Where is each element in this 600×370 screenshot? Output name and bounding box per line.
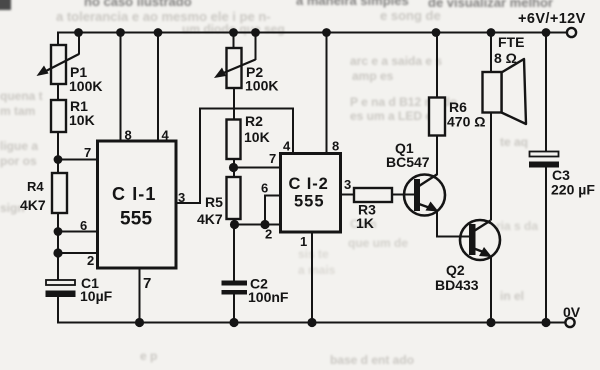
svg-text:10µF: 10µF — [80, 288, 113, 304]
wire pin 1 CI-2 to 0V rail — [311, 232, 313, 323]
svg-text:2: 2 — [265, 227, 272, 242]
wire pin 4 CI-1 to +V rail — [157, 33, 159, 142]
P1 wiper arrow — [37, 33, 80, 77]
svg-text:8: 8 — [125, 128, 132, 143]
junction P1 wiper / +V rail — [74, 28, 83, 37]
resistor R1 — [51, 100, 66, 132]
svg-text:arc e a saida e s: arc e a saida e s — [350, 54, 442, 68]
junction pin8 CI-2 on +V rail — [322, 28, 331, 37]
wire R1 to R4 — [57, 132, 59, 173]
svg-text:BC547: BC547 — [386, 154, 430, 170]
svg-text:6: 6 — [80, 218, 87, 233]
junction pin1 CI-2 on 0V rail — [307, 318, 316, 327]
svg-text:4K7: 4K7 — [20, 197, 46, 213]
junction node pin2 CI-1 — [53, 248, 62, 257]
potentiometer P2 body — [227, 48, 242, 88]
junction node pin6 CI-1 — [54, 227, 63, 236]
svg-text:amp es: amp es — [352, 69, 394, 83]
wire Q2 emitter to 0V rail — [490, 256, 492, 323]
wire C3 to 0V rail — [545, 168, 547, 323]
svg-text:10K: 10K — [69, 112, 95, 128]
wire R3 to Q1 base — [392, 194, 414, 196]
svg-text:10K: 10K — [244, 129, 270, 145]
junction P2 wiper / +V rail — [251, 28, 260, 37]
junction pin6/pin2 tie CI-2 — [260, 220, 269, 229]
svg-text:base d ent ado: base d ent ado — [330, 353, 414, 367]
junction node pin2 CI-2 — [230, 220, 239, 229]
svg-text:8 Ω: 8 Ω — [494, 50, 517, 66]
svg-text:Q2: Q2 — [446, 262, 465, 278]
svg-text:ligue a: ligue a — [0, 139, 38, 153]
junction pin7 CI-1 on 0V rail — [135, 318, 144, 327]
+V supply rail wire — [58, 33, 567, 46]
svg-text:R4: R4 — [27, 179, 44, 194]
wire pin 3 CI-2 to R3 — [341, 194, 355, 196]
capacitor C2 — [222, 281, 248, 295]
wire Q1 collector to R6 — [436, 136, 438, 175]
svg-text:100nF: 100nF — [248, 289, 289, 305]
svg-text:no caso ilustrado: no caso ilustrado — [84, 0, 192, 9]
svg-text:100K: 100K — [69, 78, 102, 94]
wire R4 to C1 — [57, 213, 59, 280]
svg-text:555: 555 — [294, 193, 325, 211]
wire to pin 2 CI-1 — [58, 252, 98, 254]
svg-text:R5: R5 — [205, 194, 223, 210]
junction Q2 emitter on 0V rail — [486, 318, 495, 327]
wire Q2 collector to speaker — [490, 113, 492, 221]
svg-text:8: 8 — [332, 139, 339, 154]
junction node pin7 CI-2 — [229, 163, 238, 172]
wire C3 to +V rail — [545, 33, 547, 152]
wire to pin 7 CI-1 — [58, 159, 98, 161]
junction C3 on +V rail — [542, 28, 551, 37]
svg-text:470 Ω: 470 Ω — [447, 114, 485, 130]
svg-text:e song de: e song de — [380, 8, 441, 23]
svg-text:m tam: m tam — [0, 104, 35, 118]
wire speaker to +V rail — [490, 33, 492, 73]
svg-text:7: 7 — [84, 145, 91, 160]
speaker FTE — [483, 59, 527, 124]
svg-text:R2: R2 — [245, 113, 263, 129]
wire to pin 2 CI-2 — [235, 224, 281, 226]
junction R6 on +V rail — [432, 28, 441, 37]
capacitor C3 — [529, 152, 559, 168]
junction speaker on +V rail — [487, 28, 496, 37]
svg-text:te aq: te aq — [500, 135, 528, 149]
svg-text:2: 2 — [87, 253, 94, 268]
svg-text:220 µF: 220 µF — [551, 182, 595, 198]
resistor R3 — [354, 188, 392, 202]
wire R5 to C2 — [233, 219, 235, 281]
svg-text:7: 7 — [143, 275, 151, 292]
P2 wiper arrow — [214, 33, 256, 79]
junction node pin7 CI-1 — [54, 155, 63, 164]
wire P2 to +V rail — [233, 33, 235, 49]
svg-text:1K: 1K — [356, 215, 374, 231]
svg-text:555: 555 — [120, 209, 153, 230]
svg-text:4: 4 — [162, 128, 170, 143]
wire Q1 emitter to Q2 base — [437, 211, 469, 237]
op IC CI-2 555 — [281, 154, 341, 233]
svg-text:1: 1 — [300, 234, 307, 249]
svg-text:quena t: quena t — [0, 89, 43, 103]
svg-text:e p: e p — [140, 349, 157, 363]
svg-text:que um de: que um de — [348, 236, 408, 250]
svg-text:7: 7 — [269, 151, 276, 166]
svg-text:sis te: sis te — [298, 247, 329, 261]
wire R2 to R5 — [233, 159, 235, 177]
junction pin8 CI-1 on +V rail — [116, 28, 125, 37]
wire to pin 6 CI-1 — [58, 231, 98, 233]
terminal 0V — [565, 318, 574, 327]
svg-text:+6V/+12V: +6V/+12V — [518, 11, 586, 27]
junction C3 on 0V rail — [541, 318, 550, 327]
transistor Q2 — [460, 220, 500, 260]
junction pin4 CI-1 on +V rail — [154, 28, 163, 37]
svg-text:de visualizar melhor: de visualizar melhor — [428, 0, 553, 10]
svg-text:ria s da: ria s da — [496, 219, 538, 233]
svg-text:3: 3 — [344, 177, 351, 192]
potentiometer P1 body — [51, 45, 66, 84]
resistor R4 — [52, 173, 67, 213]
0V rail wire — [58, 297, 566, 323]
svg-text:0V: 0V — [563, 304, 581, 320]
svg-text:por os: por os — [0, 154, 37, 168]
wire to pin 6 CI-2 — [265, 196, 281, 225]
wire R6 to +V rail — [436, 33, 438, 98]
svg-text:C I-2: C I-2 — [289, 175, 329, 193]
wire P2 to R2 — [233, 88, 235, 120]
transistor Q1 — [404, 174, 445, 216]
svg-text:a maneira simples: a maneira simples — [296, 0, 409, 8]
svg-text:4: 4 — [283, 139, 291, 154]
capacitor C1 — [46, 280, 76, 297]
svg-text:4K7: 4K7 — [197, 211, 223, 227]
svg-text:C I-1: C I-1 — [112, 184, 157, 204]
junction P2 on +V rail — [229, 28, 238, 37]
wire pin 8 CI-2 to +V rail — [326, 33, 328, 154]
svg-text:FTE: FTE — [498, 34, 524, 50]
wire C2 to 0V rail — [233, 295, 235, 323]
svg-text:in el: in el — [500, 289, 524, 303]
svg-text:BD433: BD433 — [435, 277, 479, 293]
svg-text:a mais: a mais — [298, 263, 336, 277]
wire pin 8 CI-1 to +V rail — [120, 33, 122, 142]
svg-text:6: 6 — [261, 181, 268, 196]
wire pin 7 CI-1 bottom to 0V rail — [139, 268, 141, 323]
wire to pin 7 CI-2 — [234, 167, 281, 169]
svg-text:3: 3 — [178, 190, 185, 205]
resistor R5 — [227, 177, 241, 219]
terminal +6V/+12V — [567, 28, 576, 37]
wire P1 to R1 — [57, 84, 59, 100]
resistor R6 — [429, 98, 445, 136]
svg-text:100K: 100K — [245, 78, 278, 94]
junction C2 on 0V rail — [229, 318, 238, 327]
resistor R2 — [227, 120, 241, 160]
op IC CI-1 555 — [98, 141, 177, 268]
wire pin 3 CI-1 to pin 4 CI-2 — [176, 109, 293, 204]
